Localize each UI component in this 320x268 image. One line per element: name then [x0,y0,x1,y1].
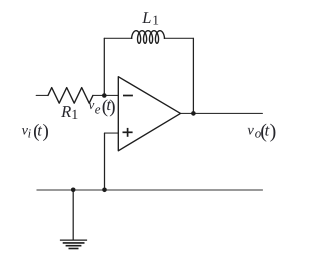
svg-text:): ) [270,121,277,143]
svg-text:1: 1 [152,13,159,28]
svg-text:R: R [60,102,71,121]
svg-text:i: i [28,126,32,140]
svg-text:): ) [43,121,49,142]
svg-text:v: v [247,123,254,139]
svg-text:e: e [95,102,101,117]
svg-text:1: 1 [71,108,78,123]
svg-text:): ) [109,96,115,117]
svg-text:L: L [141,8,151,27]
svg-text:v: v [89,97,95,112]
svg-text:t: t [37,120,42,139]
